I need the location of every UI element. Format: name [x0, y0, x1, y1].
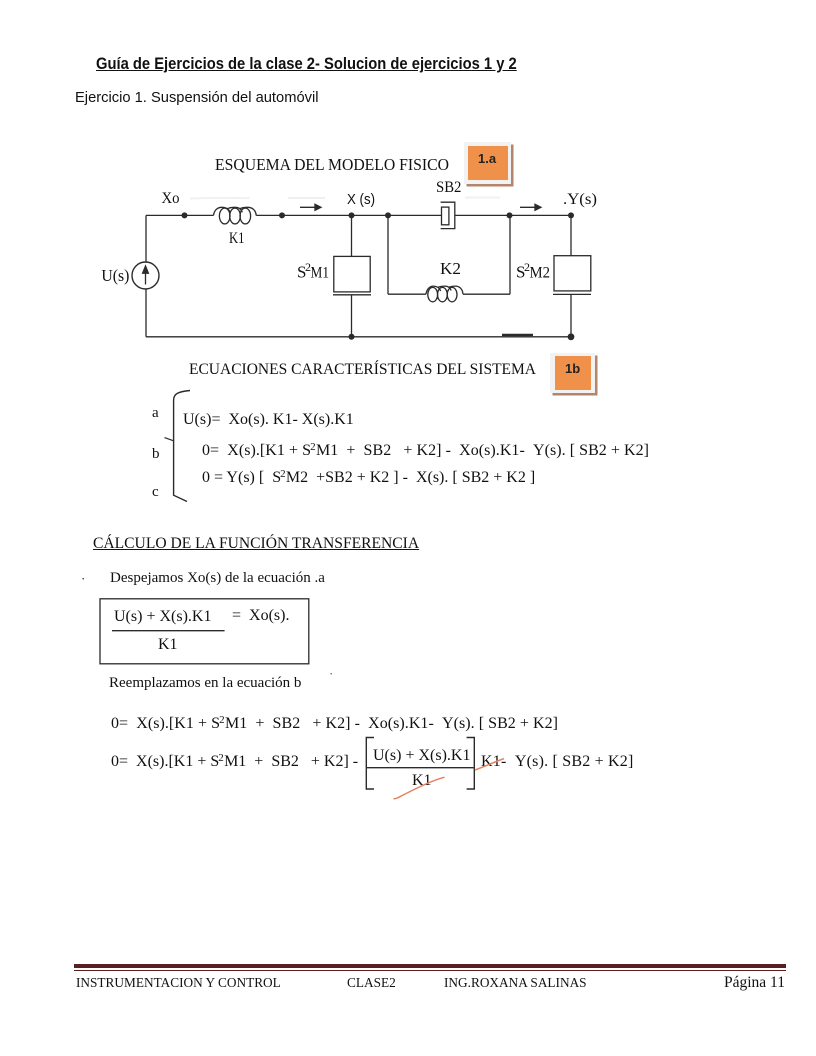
- scan smudge left: [190, 197, 250, 200]
- wire X(s) down to M1: [351, 215, 353, 256]
- node X(s) dot: [349, 212, 355, 218]
- orange strike on K1 after bracket: [475, 759, 504, 770]
- equation label c: [152, 485, 159, 500]
- bottom wire: [146, 336, 571, 338]
- bracket fraction left bracket: [366, 738, 374, 790]
- node Xo dot: [182, 212, 188, 218]
- fraction bar in box: [112, 630, 225, 632]
- wire top middle segment: [256, 214, 441, 216]
- svg-text:K1: K1: [229, 230, 245, 247]
- heading ESQUEMA DEL MODELO FISICO: [215, 156, 449, 173]
- orange tag box 1b: [550, 353, 595, 393]
- boxed fraction: numerator: [114, 609, 211, 625]
- svg-text:Xo: Xo: [162, 190, 180, 207]
- heading CALCULO: [93, 536, 419, 552]
- left vertical wire upper: [145, 215, 147, 262]
- scan smudge right: [465, 197, 500, 199]
- svg-text:U(s): U(s): [101, 266, 129, 285]
- footer rule thin: [74, 970, 786, 971]
- footer author: [444, 976, 587, 989]
- svg-text:K2: K2: [440, 259, 461, 278]
- mass box S2M2: [554, 256, 591, 291]
- K2 branch left horizontal: [388, 293, 426, 295]
- equation label a: [152, 406, 159, 421]
- S2M1 base line: [333, 294, 371, 296]
- damper SB2 piston: [442, 207, 449, 225]
- bottom wire thick dash: [502, 334, 533, 336]
- node bottom M1 dot: [349, 334, 355, 340]
- K2 branch right vertical: [509, 215, 511, 294]
- spring K1: [214, 207, 257, 224]
- node K2 right dot: [507, 212, 513, 218]
- S2M2 base line: [553, 293, 591, 295]
- wire M1 to bottom: [351, 295, 353, 337]
- equation c: [202, 470, 535, 486]
- small dot mark: [81, 572, 85, 585]
- long equation 2 left part: [111, 754, 358, 770]
- big curly bracket for a b c: [174, 391, 190, 502]
- node after K1 dot: [279, 212, 285, 218]
- footer clase2: [347, 976, 396, 989]
- small tick mark: [329, 667, 333, 680]
- mass box S2M1: [334, 256, 370, 292]
- line Reemplazamos: [109, 676, 301, 691]
- equation b: [202, 443, 649, 459]
- flow arrow at Y(s): [520, 204, 541, 210]
- svg-text:.Y(s): .Y(s): [563, 191, 597, 208]
- equation label b: [152, 447, 160, 462]
- long equation 1: [111, 716, 558, 732]
- bracket fraction denominator K1: [412, 773, 432, 789]
- node bottom M2 dot: [568, 333, 575, 340]
- node Y(s) dot: [568, 212, 574, 218]
- bracket fraction bar: [367, 767, 474, 769]
- orange tag box 1.a: [464, 142, 511, 184]
- footer page number: [724, 975, 785, 991]
- svg-text:M2: M2: [530, 265, 551, 282]
- damper SB2 outer cup: [441, 202, 455, 228]
- subtitle Ejercicio 1: [75, 90, 318, 105]
- svg-text:SB2: SB2: [436, 179, 461, 196]
- boxed fraction: denominator K1: [158, 637, 178, 653]
- svg-text:M1: M1: [311, 265, 330, 282]
- svg-text:X (s): X (s): [347, 191, 375, 208]
- K2 branch left vertical: [387, 215, 389, 294]
- wire top right segment: [455, 214, 571, 216]
- bracket fraction numerator: [373, 748, 470, 764]
- line Despejamos: [110, 571, 325, 586]
- node K2 left dot: [385, 212, 391, 218]
- orange strike on denominator K1: [394, 777, 445, 799]
- box around transfer function: [100, 599, 309, 664]
- equation a: [183, 412, 354, 428]
- wire top left segment: [146, 214, 214, 216]
- K2 branch right horizontal: [463, 293, 510, 295]
- spring K2: [426, 286, 463, 302]
- footer left text: [76, 976, 281, 989]
- source arrow up: [143, 266, 149, 285]
- bracket fraction right bracket: [467, 738, 475, 790]
- main title: [96, 55, 517, 72]
- scan smudge mid: [288, 197, 325, 199]
- flow arrow at X(s): [300, 204, 321, 210]
- source U(s) circle: [132, 262, 159, 289]
- boxed fraction: equals Xo(s): [232, 608, 289, 624]
- wire M2 to bottom: [570, 294, 572, 336]
- wire Y(s) down to M2: [570, 215, 572, 255]
- heading ECUACIONES: [189, 362, 536, 378]
- footer rule thick: [74, 964, 786, 968]
- long equation 2 right part: [481, 754, 634, 770]
- left vertical wire lower: [145, 289, 147, 337]
